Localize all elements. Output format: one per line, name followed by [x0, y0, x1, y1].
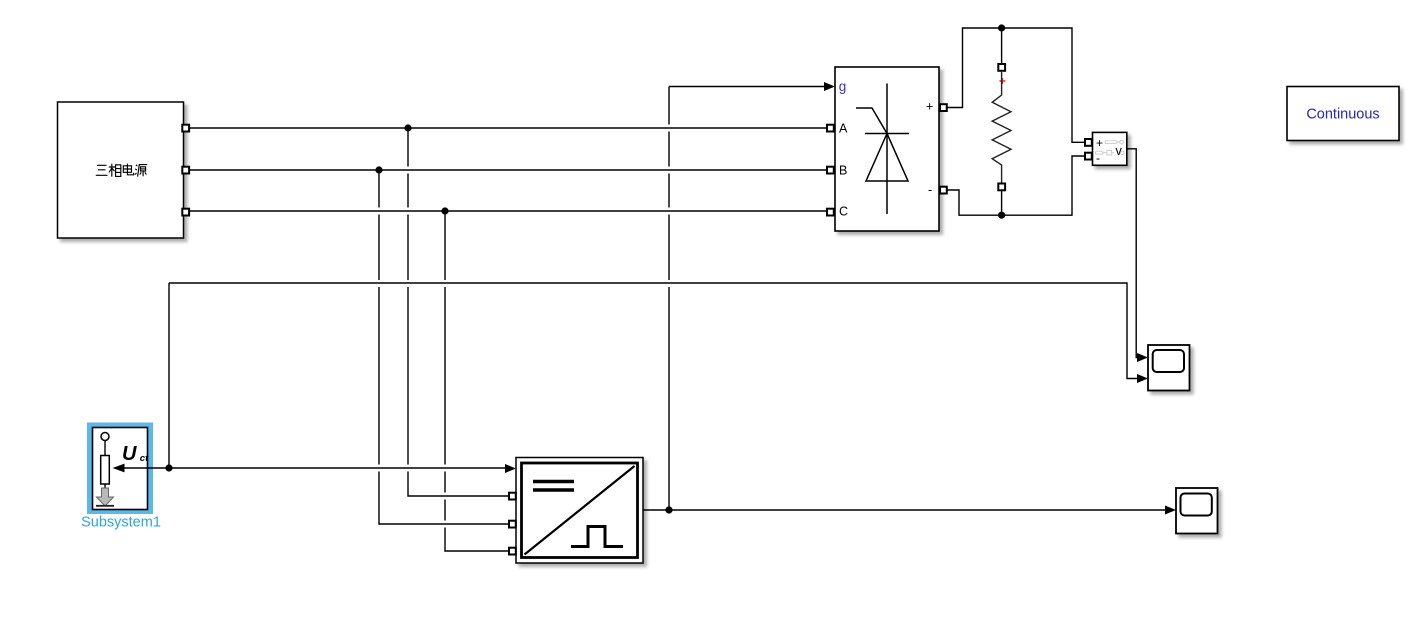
node phase C junction — [441, 207, 448, 214]
wire top rail into voltmeter plus — [1072, 138, 1085, 142]
node Uct junction — [165, 464, 172, 471]
pulse generator inner frame — [522, 463, 638, 558]
arrow into scope1 in1 — [1137, 353, 1148, 362]
node phase A junction — [404, 124, 411, 131]
node phase B junction — [375, 166, 382, 173]
source port C — [182, 209, 189, 216]
subsystem wire circle to resistor — [104, 441, 106, 456]
pulse generator equals icon — [533, 482, 574, 491]
svg-text:U: U — [122, 443, 137, 465]
subsystem ground arrow — [97, 488, 114, 506]
wire resistor bottom stub — [1001, 190, 1003, 215]
wire phase C vertical to pulse generator in4 — [445, 211, 509, 551]
wire resistor top stub — [1001, 28, 1003, 64]
subsystem wire resistor to ground — [104, 484, 106, 490]
bridge port A — [827, 125, 834, 132]
arrow into scope1 in2 — [1137, 374, 1148, 383]
subsystem wiper lead — [124, 467, 148, 469]
wire Uct vertical branch — [168, 283, 170, 468]
thyristor icon inside bridge — [856, 84, 909, 215]
svg-text:+: + — [926, 100, 933, 114]
wire gate feedback horizontal to bridge g — [669, 86, 824, 88]
svg-text:g: g — [839, 79, 847, 94]
wire phase B vertical to pulse generator in3 — [379, 170, 509, 524]
potentiometer subsystem1 highlight border — [90, 425, 151, 512]
wire bridge minus to DC bottom rail — [947, 156, 1085, 215]
three-phase source block 三相电源 — [58, 102, 184, 238]
arrow into pulse generator in1 — [505, 464, 516, 473]
subsystem wiper arrow — [113, 464, 125, 473]
svg-text:-: - — [1096, 151, 1100, 165]
resistor polarity plus mark — [999, 78, 1005, 84]
svg-text:C: C — [839, 205, 848, 219]
subsystem terminal circle — [101, 433, 109, 441]
voltmeter icon faint — [1096, 140, 1125, 155]
wire phase B horizontal — [189, 169, 827, 171]
svg-text:Continuous: Continuous — [1306, 107, 1379, 123]
node DC top rail junction — [998, 24, 1005, 31]
wire bridge plus to DC top rail — [947, 28, 1072, 138]
scope1 block — [1148, 345, 1190, 391]
pulse generator pulse icon — [571, 527, 623, 547]
voltage measurement block V — [1093, 132, 1127, 165]
wire Uct long horizontal to scope1 in2 — [169, 283, 1138, 379]
voltmeter plus port — [1085, 139, 1092, 146]
svg-text:v: v — [1116, 144, 1123, 158]
wire Uct output to pulse generator in1 — [148, 467, 506, 469]
pulse generator port in4 — [509, 548, 516, 555]
bridge port C — [827, 209, 834, 216]
powergui block Continuous — [1287, 87, 1399, 141]
bridge port minus — [940, 187, 947, 194]
svg-text:-: - — [928, 183, 932, 197]
node DC bottom rail junction — [998, 212, 1005, 219]
wire voltmeter output to scope1 in1 — [1127, 149, 1138, 358]
wire phase A vertical to pulse generator in2 — [408, 128, 509, 496]
bridge port plus — [940, 104, 947, 111]
resistor R load bottom port — [998, 184, 1005, 191]
node pulse output junction — [665, 506, 672, 513]
scope2 screen — [1181, 494, 1212, 516]
potentiometer subsystem1 block — [93, 428, 148, 510]
arrow into scope2 — [1165, 506, 1176, 515]
scope2 block — [1176, 488, 1218, 534]
bridge port B — [827, 167, 834, 174]
svg-text:Subsystem1: Subsystem1 — [81, 515, 161, 531]
voltmeter minus port — [1085, 153, 1092, 160]
subsystem resistor box — [101, 456, 110, 485]
pulse generator diagonal — [525, 466, 635, 555]
svg-text:B: B — [839, 164, 847, 178]
universal bridge block U1 — [835, 67, 939, 231]
svg-text:A: A — [839, 122, 848, 136]
bridge input arrow g — [824, 82, 835, 91]
pulse generator port in3 — [509, 521, 516, 528]
svg-text:+: + — [1096, 136, 1103, 150]
resistor R load top port — [998, 64, 1005, 71]
source port A — [182, 125, 189, 132]
wire gate feedback vertical — [668, 87, 670, 511]
label 三相电源 — [96, 164, 147, 177]
subsystem ground base line — [96, 505, 114, 507]
pulse generator port in2 — [509, 493, 516, 500]
wire phase C horizontal — [189, 210, 827, 212]
resistor R load zigzag — [992, 71, 1011, 184]
source port B — [182, 167, 189, 174]
scope1 screen — [1153, 350, 1184, 372]
wire phase A horizontal — [189, 127, 827, 129]
svg-text:ct: ct — [140, 453, 149, 464]
pulse generator block outer — [516, 458, 643, 564]
wire pulse generator output to scope2 — [643, 509, 1165, 511]
